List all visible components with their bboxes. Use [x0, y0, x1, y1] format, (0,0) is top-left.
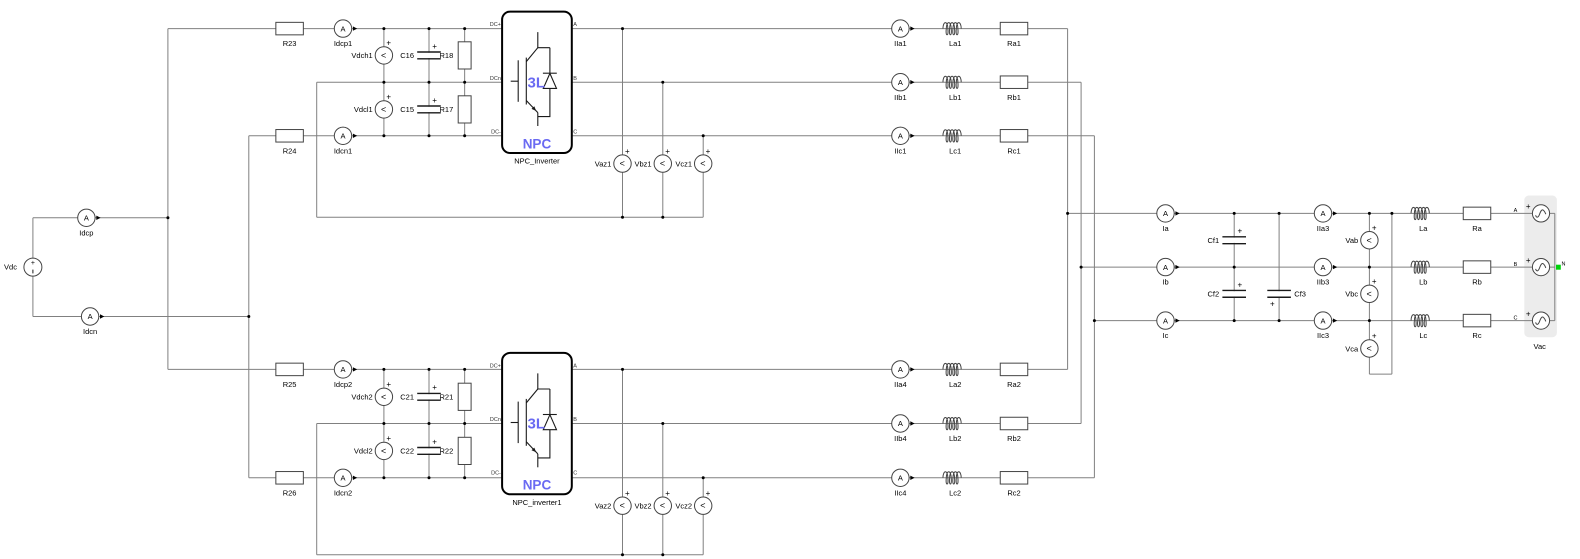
ammeter Idcn: [81, 308, 104, 336]
node Vcz1 tap: [702, 134, 705, 137]
ammeter IIc1: [892, 127, 915, 155]
node Cf1/Cf2 mid: [1233, 266, 1236, 269]
voltmeter Vab: [1345, 223, 1378, 249]
ammeter IIa4: [892, 361, 915, 389]
svg-text:Idcp2: Idcp2: [334, 380, 352, 389]
ammeter Idcp1: [334, 20, 357, 48]
svg-text:Vcz2: Vcz2: [675, 502, 692, 511]
capacitor C15: [400, 96, 441, 114]
svg-text:A: A: [1320, 316, 1325, 325]
svg-text:<: <: [660, 159, 665, 169]
svg-text:<: <: [1366, 235, 1371, 245]
svg-text:A: A: [898, 419, 903, 428]
svg-text:+: +: [625, 489, 630, 498]
ammeter Ib: [1157, 258, 1180, 286]
capacitor Cf2: [1208, 280, 1246, 298]
ammeter Idcp2: [334, 361, 357, 389]
svg-text:+: +: [665, 147, 670, 156]
node Cf1 top: [1233, 212, 1236, 215]
svg-text:NPC: NPC: [523, 478, 552, 493]
svg-text:Vaz2: Vaz2: [595, 502, 612, 511]
svg-text:A: A: [340, 474, 345, 483]
wire phase C1: [572, 135, 1095, 137]
capacitor Cf1: [1208, 227, 1246, 245]
wire Cf1/Cf2 column: [1233, 213, 1235, 320]
svg-text:+: +: [1526, 309, 1531, 318]
wire Vca return riser: [1391, 213, 1393, 374]
svg-text:Ic: Ic: [1163, 331, 1169, 340]
resistor R24: [276, 130, 304, 156]
svg-text:Rb2: Rb2: [1007, 434, 1021, 443]
inductor La1: [943, 23, 962, 49]
igbt icon inside NPC_Inverter: [511, 32, 550, 126]
svg-text:A: A: [1320, 263, 1325, 272]
svg-text:R25: R25: [283, 380, 297, 389]
svg-text:<: <: [1366, 289, 1371, 299]
wire Vaz1 column: [622, 29, 624, 218]
svg-text:+: +: [386, 39, 391, 48]
svg-text:+: +: [386, 93, 391, 102]
wire phase B link: [1080, 82, 1082, 423]
wire DCn drop inverter1: [316, 82, 318, 217]
subsystem NPC_Inverter1 (3-level NPC inverter block): [502, 353, 572, 494]
svg-text:A: A: [898, 365, 903, 374]
wire Vbz2 column: [662, 424, 664, 555]
svg-text:<: <: [660, 501, 665, 511]
resistor Rb: [1463, 261, 1491, 287]
node C21 bottom: [428, 422, 431, 425]
node Vbz2 tap: [661, 422, 664, 425]
capacitor C16: [400, 42, 441, 60]
capacitor C21: [400, 383, 441, 401]
svg-text:A: A: [340, 365, 345, 374]
svg-text:A: A: [1514, 208, 1518, 214]
inductor Lc1: [943, 130, 961, 156]
wire grid phase B: [1081, 266, 1555, 268]
node Vdch1 top: [382, 27, 385, 30]
svg-text:+: +: [706, 147, 711, 156]
svg-text:Vdcl1: Vdcl1: [354, 105, 373, 114]
node C15 bottom: [428, 134, 431, 137]
wire grid neutral bus: [1554, 213, 1556, 320]
node Cf3 top: [1278, 212, 1281, 215]
svg-text:Lc1: Lc1: [949, 146, 961, 155]
voltmeter Vcz1: [675, 147, 712, 173]
resistor R21: [440, 383, 472, 410]
svg-text:R26: R26: [283, 488, 297, 497]
wire Vdch1/Vdcl1 column: [383, 29, 385, 136]
svg-text:DC+: DC+: [490, 22, 501, 28]
svg-text:+: +: [31, 260, 35, 267]
node Cf3 bottom: [1278, 319, 1281, 322]
inductor La: [1411, 207, 1429, 233]
svg-text:Vbz2: Vbz2: [634, 502, 651, 511]
inductor Lb: [1411, 261, 1429, 287]
svg-text:N: N: [1562, 262, 1566, 268]
svg-text:IIc1: IIc1: [894, 146, 906, 155]
node Vdch2 bottom: [382, 422, 385, 425]
ammeter Ic: [1157, 312, 1180, 340]
svg-text:A: A: [898, 78, 903, 87]
svg-text:Vdcl2: Vdcl2: [354, 447, 373, 456]
capacitor C22: [400, 437, 441, 455]
node Vdch1 bottom: [382, 81, 385, 84]
svg-text:Vaz1: Vaz1: [595, 159, 612, 168]
svg-text:<: <: [1366, 344, 1371, 354]
svg-text:Ra: Ra: [1472, 224, 1482, 233]
svg-text:Vdch1: Vdch1: [351, 51, 372, 60]
ammeter IIb1: [892, 74, 915, 102]
svg-text:<: <: [700, 501, 705, 511]
svg-text:IIa3: IIa3: [1317, 224, 1330, 233]
svg-text:C21: C21: [400, 393, 414, 402]
svg-text:C22: C22: [400, 447, 414, 456]
svg-text:+: +: [432, 96, 437, 105]
svg-text:C: C: [573, 129, 577, 135]
resistor Ra2: [1000, 363, 1028, 389]
svg-text:IIc3: IIc3: [1317, 331, 1329, 340]
wire Vdc leads: [32, 218, 34, 317]
ac voltage source Vac phase B phase B: [1514, 256, 1550, 276]
wire phase A link: [1067, 29, 1069, 370]
ammeter IIb4: [892, 415, 915, 443]
svg-text:R22: R22: [440, 447, 454, 456]
resistor Rc2: [1000, 472, 1028, 498]
node Vca return top: [1390, 212, 1393, 215]
svg-text:+: +: [1372, 277, 1377, 286]
resistor R25: [276, 363, 304, 389]
wire zero-sequence bus inverter1: [317, 216, 704, 218]
svg-text:A: A: [573, 22, 577, 28]
voltmeter Vdcl1: [354, 93, 393, 119]
wire grid phase A: [1068, 212, 1555, 214]
svg-text:A: A: [340, 24, 345, 33]
resistor Rb1: [1000, 76, 1028, 102]
wire phase A2: [572, 368, 1068, 370]
wire R21/R22 column: [464, 369, 466, 477]
svg-text:+: +: [432, 42, 437, 51]
node Vbz1 tap: [661, 81, 664, 84]
node R21 top: [463, 368, 466, 371]
svg-text:+: +: [625, 147, 630, 156]
svg-text:<: <: [381, 104, 386, 114]
svg-text:+: +: [1237, 227, 1242, 236]
wire R18/R17 column: [464, 29, 466, 136]
svg-text:Lc: Lc: [1419, 331, 1427, 340]
svg-text:R23: R23: [283, 39, 297, 48]
node C21 top: [428, 368, 431, 371]
svg-text:NPC_Inverter: NPC_Inverter: [514, 157, 560, 166]
resistor R23: [276, 22, 304, 48]
node Vcz2 tap: [702, 476, 705, 479]
svg-text:<: <: [620, 159, 625, 169]
resistor R26: [276, 472, 304, 498]
svg-text:B: B: [573, 76, 577, 82]
node C16 bottom: [428, 81, 431, 84]
svg-text:NPC: NPC: [523, 136, 552, 151]
svg-text:+: +: [386, 380, 391, 389]
svg-text:B: B: [573, 417, 577, 423]
wire Vaz2 column: [622, 369, 624, 554]
resistor R18: [440, 42, 472, 69]
svg-text:<: <: [620, 501, 625, 511]
svg-text:A: A: [88, 312, 93, 321]
node phase B tie: [1080, 266, 1083, 269]
svg-text:A: A: [898, 474, 903, 483]
svg-text:+: +: [432, 437, 437, 446]
node Vdch2 top: [382, 368, 385, 371]
svg-text:Vdch2: Vdch2: [351, 393, 372, 402]
dc voltage source Vdc: [4, 258, 42, 276]
svg-text:C: C: [573, 471, 577, 477]
svg-text:<: <: [381, 446, 386, 456]
wire C16/C15 column: [428, 29, 430, 136]
svg-text:IIc4: IIc4: [894, 488, 906, 497]
svg-text:Vbc: Vbc: [1345, 290, 1358, 299]
svg-text:<: <: [381, 392, 386, 402]
wire DC- rail: [248, 136, 250, 478]
node Vaz1 return: [621, 216, 624, 219]
svg-text:Idcn2: Idcn2: [334, 488, 352, 497]
ammeter IIb3: [1314, 258, 1337, 286]
svg-text:DCn: DCn: [490, 417, 501, 423]
svg-text:Vca: Vca: [1345, 344, 1359, 353]
svg-text:R18: R18: [440, 51, 454, 60]
svg-text:IIb3: IIb3: [1317, 278, 1330, 287]
node R22 bottom: [463, 476, 466, 479]
ac voltage source Vac phase C phase C: [1514, 309, 1550, 329]
wire phase C link: [1093, 136, 1095, 478]
node C22 bottom: [428, 476, 431, 479]
wire DC- bus inverter1: [249, 135, 502, 137]
wire DCn drop inverter2: [316, 424, 318, 555]
svg-text:+: +: [706, 489, 711, 498]
wire Idcn branch: [33, 316, 249, 318]
svg-text:+: +: [386, 434, 391, 443]
svg-text:DC-: DC-: [491, 129, 501, 135]
svg-text:IIa1: IIa1: [894, 39, 907, 48]
grid source shaded panel: [1524, 196, 1557, 338]
svg-text:A: A: [1163, 316, 1168, 325]
node Vab bottom: [1368, 266, 1371, 269]
node Vca top: [1368, 319, 1371, 322]
svg-text:Rc1: Rc1: [1007, 146, 1020, 155]
resistor R17: [440, 96, 472, 123]
ammeter IIa1: [892, 20, 915, 48]
node Vbz2 return: [661, 553, 664, 556]
wire Idcp branch: [33, 217, 168, 219]
svg-text:Cf3: Cf3: [1294, 290, 1306, 299]
svg-text:Ra2: Ra2: [1007, 380, 1021, 389]
svg-text:C16: C16: [400, 51, 414, 60]
wire DC+ bus inverter1: [168, 28, 502, 30]
inductor Lb1: [943, 76, 962, 102]
node Vaz2 tap: [621, 368, 624, 371]
wire Cf3 column: [1278, 213, 1280, 320]
wire line voltmeter column: [1368, 213, 1370, 374]
svg-text:La2: La2: [949, 380, 962, 389]
wire DC+ bus inverter2: [168, 368, 502, 370]
freewheeling diode icon inside NPC_Inverter: [538, 48, 557, 117]
wire grid phase C: [1094, 320, 1554, 322]
resistor Rc: [1463, 314, 1491, 340]
voltmeter Vbz1: [634, 147, 671, 173]
svg-text:+: +: [1526, 202, 1531, 211]
resistor Rc1: [1000, 130, 1028, 156]
wire C21/C22 column: [428, 369, 430, 477]
svg-text:Ib: Ib: [1162, 278, 1168, 287]
wire phase B2: [572, 423, 1081, 425]
svg-text:Vdc: Vdc: [4, 263, 17, 272]
voltmeter Vdch1: [351, 39, 392, 65]
svg-text:R17: R17: [440, 105, 454, 114]
wire phase A1: [572, 28, 1068, 30]
wire zero-sequence bus inverter2: [317, 554, 704, 556]
voltmeter Vaz2: [595, 489, 631, 515]
svg-text:Lb1: Lb1: [949, 93, 962, 102]
resistor Rb2: [1000, 417, 1028, 443]
wire DC- bus inverter2: [249, 477, 502, 479]
svg-text:A: A: [1163, 209, 1168, 218]
svg-text:3L: 3L: [528, 74, 546, 91]
ammeter Ia: [1157, 205, 1180, 233]
svg-text:IIb1: IIb1: [894, 93, 907, 102]
node Vab top: [1368, 212, 1371, 215]
svg-text:Vcz1: Vcz1: [675, 159, 692, 168]
wire phase B1: [572, 81, 1081, 83]
voltmeter Vdch2: [351, 380, 392, 405]
svg-text:A: A: [898, 24, 903, 33]
svg-text:DC-: DC-: [491, 471, 501, 477]
node Vdcl2 bottom: [382, 476, 385, 479]
node R17 bottom: [463, 134, 466, 137]
node R21 bottom: [463, 422, 466, 425]
grid neutral terminal N: [1556, 262, 1566, 270]
voltmeter Vcz2: [675, 489, 712, 515]
resistor Ra: [1463, 207, 1491, 233]
freewheeling diode icon inside NPC_Inverter1: [538, 389, 557, 458]
capacitor Cf3: [1267, 290, 1306, 309]
ammeter Idcn1: [334, 127, 357, 155]
subsystem NPC_Inverter (3-level NPC inverter block): [502, 12, 572, 153]
node Vaz1 tap: [621, 27, 624, 30]
svg-text:Lb2: Lb2: [949, 434, 962, 443]
voltmeter Vca: [1345, 332, 1378, 357]
node C16 top: [428, 27, 431, 30]
svg-text:Rb: Rb: [1472, 278, 1482, 287]
svg-text:DC+: DC+: [490, 364, 501, 370]
ammeter IIc4: [892, 469, 915, 497]
wire Vcz2 column: [702, 478, 704, 555]
svg-text:NPC_inverter1: NPC_inverter1: [512, 498, 561, 507]
svg-text:IIb4: IIb4: [894, 434, 907, 443]
wire Vdch2/Vdcl2 column: [383, 369, 385, 477]
ammeter Idcp: [78, 209, 101, 237]
svg-text:A: A: [340, 132, 345, 141]
resistor Ra1: [1000, 22, 1028, 48]
wire Vcz1 column: [702, 136, 704, 217]
svg-text:R21: R21: [440, 393, 454, 402]
svg-text:Lc2: Lc2: [949, 488, 961, 497]
svg-text:<: <: [700, 159, 705, 169]
inductor Lc: [1411, 315, 1429, 341]
svg-text:La: La: [1419, 224, 1428, 233]
svg-text:<: <: [381, 50, 386, 60]
svg-text:A: A: [1163, 263, 1168, 272]
ammeter Idcn2: [334, 469, 357, 497]
svg-text:Cf1: Cf1: [1208, 236, 1220, 245]
svg-text:Vac: Vac: [1534, 342, 1547, 351]
node R18 bottom: [463, 81, 466, 84]
ammeter IIc3: [1314, 312, 1337, 340]
svg-text:A: A: [1320, 209, 1325, 218]
wire Vbz1 column: [662, 82, 664, 217]
svg-text:DCn: DCn: [490, 76, 501, 82]
node Vbz1 return: [661, 216, 664, 219]
node Cf2 bottom: [1233, 319, 1236, 322]
svg-text:A: A: [84, 214, 89, 223]
svg-text:Rc: Rc: [1472, 331, 1481, 340]
igbt icon inside NPC_Inverter1: [511, 373, 550, 467]
svg-text:A: A: [898, 132, 903, 141]
svg-text:Idcn1: Idcn1: [334, 146, 352, 155]
svg-text:C: C: [1514, 315, 1518, 321]
svg-text:Idcp1: Idcp1: [334, 39, 352, 48]
svg-text:Ia: Ia: [1162, 224, 1169, 233]
svg-text:+: +: [1237, 280, 1242, 289]
node Vdcl1 bottom: [382, 134, 385, 137]
svg-text:Cf2: Cf2: [1208, 290, 1220, 299]
ammeter IIa3: [1314, 205, 1337, 233]
voltmeter Vaz1: [595, 147, 631, 173]
node Vaz2 return: [621, 553, 624, 556]
svg-text:+: +: [1270, 299, 1275, 308]
svg-text:Vbz1: Vbz1: [634, 159, 651, 168]
svg-text:Idcn: Idcn: [83, 327, 97, 336]
svg-text:A: A: [573, 364, 577, 370]
svg-text:+: +: [1526, 256, 1531, 265]
wire DCn bus inverter1: [317, 81, 502, 83]
wire Vca return bottom: [1369, 373, 1392, 375]
wire phase C2: [572, 477, 1095, 479]
svg-text:R24: R24: [283, 146, 297, 155]
node Idcp junction: [166, 216, 169, 219]
node Idcn junction: [247, 315, 250, 318]
wire DCn bus inverter2: [317, 423, 502, 425]
voltmeter Vdcl2: [354, 434, 393, 459]
svg-text:C15: C15: [400, 105, 414, 114]
voltmeter Vbz2: [634, 489, 671, 515]
svg-text:Lb: Lb: [1419, 278, 1427, 287]
node phase C tie: [1093, 319, 1096, 322]
svg-text:+: +: [665, 489, 670, 498]
svg-text:Idcp: Idcp: [79, 228, 93, 237]
ac voltage source Vac phase A phase A: [1514, 202, 1550, 222]
svg-text:B: B: [1514, 262, 1518, 268]
svg-text:+: +: [1372, 223, 1377, 232]
inductor Lc2: [943, 472, 961, 498]
svg-text:3L: 3L: [528, 416, 546, 433]
node R18 top: [463, 27, 466, 30]
wire DC+ rail: [167, 29, 169, 370]
svg-text:Rb1: Rb1: [1007, 93, 1021, 102]
svg-text:La1: La1: [949, 39, 962, 48]
node phase A tie: [1066, 212, 1069, 215]
svg-text:+: +: [1372, 332, 1377, 341]
resistor R22: [440, 437, 472, 464]
svg-text:IIa4: IIa4: [894, 380, 907, 389]
svg-text:+: +: [432, 383, 437, 392]
